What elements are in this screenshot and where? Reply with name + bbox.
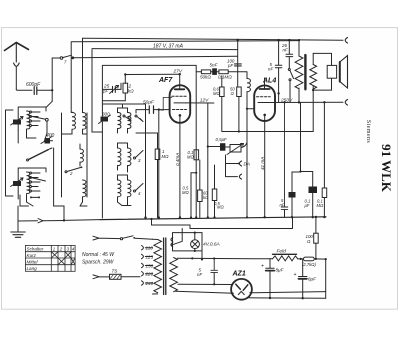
resistor 0,6M vertical xyxy=(221,76,223,87)
transformer core xyxy=(304,55,306,89)
tube AL4 xyxy=(254,85,275,121)
mains line 1 arrow xyxy=(93,236,120,240)
AL4 cathode lead xyxy=(264,115,266,217)
node heater xyxy=(150,218,152,220)
svg-text:50kΩ: 50kΩ xyxy=(200,75,211,80)
svg-text:Schalter: Schalter xyxy=(27,247,44,252)
wire vertical antenna node xyxy=(51,58,53,101)
chassis bus xyxy=(100,217,326,220)
AF7 cathode node xyxy=(179,114,182,117)
node rail145 bus xyxy=(144,216,146,218)
IF coil A xyxy=(71,111,73,114)
wire rail x145.5 xyxy=(145,104,147,218)
capacitor 5nF solid xyxy=(211,71,213,73)
svg-text:220: 220 xyxy=(145,272,154,277)
wire secondary top to speaker xyxy=(313,53,331,65)
svg-text:MΩ: MΩ xyxy=(317,203,324,208)
switch tone xyxy=(288,57,290,69)
svg-text:DA: DA xyxy=(244,162,250,167)
trimmer capacitor assembly2 xyxy=(13,181,21,186)
resistor 50 vertical xyxy=(237,87,242,97)
node screen junction xyxy=(221,79,223,81)
coil L1 xyxy=(27,111,30,129)
svg-text:(2,7kΩ): (2,7kΩ) xyxy=(302,262,316,267)
svg-text:nF: nF xyxy=(283,48,288,53)
wire left rail xyxy=(6,110,14,196)
wire ground feed xyxy=(18,206,38,221)
AZ1 electrodes xyxy=(236,284,248,290)
switch wiper assembly2 xyxy=(29,177,46,181)
AL4 grid dashed xyxy=(257,96,271,98)
resistor 0,5M b xyxy=(214,165,216,189)
svg-text:600pF: 600pF xyxy=(26,82,41,88)
wire AL4 grid line xyxy=(247,108,254,110)
svg-text:kΩ: kΩ xyxy=(128,89,134,94)
lamp loop xyxy=(173,233,203,260)
svg-text:4V,0,6A: 4V,0,6A xyxy=(203,242,220,248)
osc coil D xyxy=(128,148,131,166)
svg-text:MΩ: MΩ xyxy=(162,154,170,159)
wire AF7 anode down xyxy=(207,103,209,217)
IF coil C xyxy=(80,149,83,162)
wire corner T1 left vertical xyxy=(82,38,84,112)
svg-text:8μF: 8μF xyxy=(276,268,285,273)
wire bus T3 xyxy=(52,57,60,59)
AF7 anode xyxy=(174,102,186,104)
IF coil B xyxy=(83,113,86,130)
trimmer capacitor assembly1 xyxy=(13,120,21,125)
node bus 196 xyxy=(195,216,197,218)
resistor 0,1M b xyxy=(322,188,327,198)
mains line 2 arrow xyxy=(93,275,109,279)
AF7 grid lead left xyxy=(159,97,172,110)
transformer secondary winding xyxy=(170,258,178,292)
svg-text:110: 110 xyxy=(146,246,154,251)
capacitor 5nF AL4 xyxy=(275,40,282,68)
resistor 0,1M a xyxy=(217,71,219,73)
contact arrow b xyxy=(135,115,137,117)
AF7 top cap lead xyxy=(179,74,181,88)
svg-text:TS: TS xyxy=(112,269,119,274)
wire screen feed vertical x237.7 xyxy=(237,40,239,87)
tube AZ1 xyxy=(231,279,252,300)
terminal chevron 250V xyxy=(345,100,347,106)
resistor 100 ohm xyxy=(315,217,317,233)
selector contacts xyxy=(171,238,173,247)
wire bus T1b xyxy=(71,41,298,113)
wire osc block top corner xyxy=(54,148,64,220)
wire DA terminals xyxy=(226,155,238,177)
transformer primary winding xyxy=(154,240,162,293)
svg-text:27V: 27V xyxy=(173,69,183,75)
svg-text:Kurz: Kurz xyxy=(27,253,37,258)
band coil assembly 1 frame xyxy=(18,107,46,130)
speaker xyxy=(327,65,336,78)
contact arrow a xyxy=(123,115,125,117)
potentiometer volume xyxy=(230,145,241,153)
svg-text:150: 150 xyxy=(146,263,154,268)
AL4 cathode node xyxy=(263,114,266,117)
switch 4 xyxy=(134,190,136,192)
output transformer secondary xyxy=(312,53,314,64)
svg-text:μF: μF xyxy=(304,203,310,208)
wire right riser xyxy=(325,259,327,298)
node 50uF right xyxy=(158,108,160,110)
ground symbol xyxy=(17,221,19,232)
capacitor 5nF CT xyxy=(211,259,218,273)
coil L2 xyxy=(27,172,30,194)
AF7 anode lead right xyxy=(186,102,214,104)
svg-text:MΩ: MΩ xyxy=(217,205,224,210)
capacitor 600pF xyxy=(34,87,37,95)
arrow on ground line xyxy=(38,219,43,223)
switch contacts assembly1 xyxy=(30,111,32,113)
svg-text:MΩ: MΩ xyxy=(187,155,194,160)
osc coil A xyxy=(118,113,121,129)
wire rail x87 xyxy=(86,113,88,197)
AL4 anode xyxy=(258,102,271,104)
switch 7 xyxy=(60,57,63,60)
wire 2k bottom L xyxy=(102,93,125,101)
svg-text:+: + xyxy=(294,272,297,278)
capacitor 50uF xyxy=(149,106,153,114)
resistor 180 xyxy=(199,160,201,190)
resistor 2,7k xyxy=(304,257,315,261)
svg-text:nF: nF xyxy=(197,272,202,277)
wire HT line y259 xyxy=(177,257,272,260)
svg-text:Normal : 45 W: Normal : 45 W xyxy=(82,252,115,258)
wire T3 continuation xyxy=(74,56,238,58)
osc coil F xyxy=(128,180,131,197)
node AF7 grid cap xyxy=(179,73,181,75)
svg-text:AZ1: AZ1 xyxy=(232,271,246,278)
wire line y74.5 to AF7 grid cap xyxy=(125,73,179,75)
band coil assembly 2 frame xyxy=(18,168,46,192)
wire cap to node xyxy=(37,89,52,91)
osc coil E xyxy=(118,180,121,197)
node 27V feed xyxy=(124,73,126,75)
wave switch arm xyxy=(29,150,49,160)
table X mittel 4 xyxy=(71,258,75,265)
svg-text:41 mA: 41 mA xyxy=(260,157,265,170)
switch 3 xyxy=(134,157,136,159)
coil AL4 grid choke xyxy=(247,79,250,92)
capacitor 10nF solid xyxy=(289,192,296,198)
AL4 top cap lead xyxy=(264,78,266,88)
svg-text:Lang: Lang xyxy=(27,266,38,271)
AF7 cathode lead xyxy=(179,115,181,217)
wire AZ1 anode line 2 xyxy=(176,291,234,293)
osc coil B xyxy=(128,113,131,129)
svg-text:nF: nF xyxy=(280,202,285,207)
switch wiper assembly1 xyxy=(29,116,46,120)
capacitor 100pF xyxy=(235,64,242,66)
wire speaker HT vertical xyxy=(323,102,325,188)
antenna xyxy=(15,43,17,63)
lamp dial xyxy=(191,240,200,249)
table X kurz 1 xyxy=(51,252,58,258)
capacitor 0,1uF solid xyxy=(309,187,318,194)
resistor 50k xyxy=(197,71,202,73)
terminal chevron DA1 xyxy=(239,161,241,166)
svg-text:nF: nF xyxy=(268,67,273,72)
node ground line xyxy=(63,219,65,221)
svg-text:Mittel: Mittel xyxy=(27,260,39,265)
transformer core xyxy=(164,238,166,295)
AF7 grid1 dashed xyxy=(172,95,187,97)
switch 2 xyxy=(67,168,81,172)
wire transformer return xyxy=(250,292,326,293)
wire corner T2 left vertical xyxy=(92,50,102,133)
svg-text:2: 2 xyxy=(59,247,63,252)
svg-text:Siemens: Siemens xyxy=(365,120,371,143)
heater sub line xyxy=(152,217,293,228)
svg-text:8μF: 8μF xyxy=(308,277,317,282)
wire bus T2 xyxy=(92,49,238,50)
svg-text:+: + xyxy=(261,264,264,270)
svg-text:125: 125 xyxy=(146,254,154,259)
box frame RF section xyxy=(102,65,196,217)
resistor 1M xyxy=(157,133,159,149)
voltage selector wiper xyxy=(171,229,182,246)
wire 250V line xyxy=(271,101,343,103)
capacitor 8uF a xyxy=(266,259,274,269)
AF7 grid cap bar xyxy=(175,88,185,90)
wire secondary bottom to speaker xyxy=(313,78,331,90)
tube AF7 xyxy=(170,85,191,123)
svg-text:0,5μF: 0,5μF xyxy=(216,137,228,142)
fuse TS xyxy=(110,274,122,279)
svg-text:pF: pF xyxy=(227,63,233,68)
wire bus T1 187V top xyxy=(83,38,344,40)
svg-text:250V: 250V xyxy=(280,97,293,103)
wire assembly1 bottom xyxy=(18,121,52,143)
svg-text:50μF: 50μF xyxy=(143,100,155,106)
wire pot hook xyxy=(241,143,247,148)
osc coil C xyxy=(118,148,121,166)
IF coil D xyxy=(83,180,86,197)
svg-text:240: 240 xyxy=(145,281,154,286)
node antenna junction xyxy=(51,89,53,91)
svg-text:0,4mA: 0,4mA xyxy=(175,153,180,166)
transformer taps xyxy=(142,246,153,250)
table Schalter xyxy=(25,245,75,271)
mains switch xyxy=(120,238,122,240)
wire output sub line xyxy=(292,171,301,173)
wire assembly2 bottom jog xyxy=(18,192,33,206)
resistor 0,1M c xyxy=(194,150,199,160)
wire 25pF leads xyxy=(102,83,121,89)
svg-text:91 WLK: 91 WLK xyxy=(379,144,394,193)
wire AZ1 anode line xyxy=(178,283,231,285)
AL4 grid cap bar xyxy=(260,88,270,90)
wire 2k top to 74.5 line xyxy=(124,75,126,84)
wire antenna to cap xyxy=(16,89,32,91)
wire diagonal to band switch xyxy=(46,101,52,107)
capacitor 8uF b xyxy=(299,259,307,276)
terminal chevron T1 xyxy=(345,38,347,44)
svg-text:MΩ: MΩ xyxy=(213,91,220,96)
svg-text:AF7: AF7 xyxy=(158,77,173,84)
wire osc tops xyxy=(102,104,145,108)
output transformer primary xyxy=(298,39,300,41)
svg-text:Sparsch. 29W: Sparsch. 29W xyxy=(82,260,115,266)
wire rail x159 xyxy=(158,110,160,218)
table X mittel 2 xyxy=(58,258,65,265)
wire jog 0,1Mc xyxy=(191,173,196,218)
AF7 grid2 dashed xyxy=(173,109,187,111)
svg-text:5nF: 5nF xyxy=(210,63,219,68)
table X kurz 3 xyxy=(65,252,71,258)
resistor 2k xyxy=(123,83,128,93)
svg-text:2: 2 xyxy=(69,171,73,176)
terminal chevron DA2 xyxy=(239,174,241,179)
wire 50uF line xyxy=(136,110,170,113)
svg-text:0,1MΩ: 0,1MΩ xyxy=(218,75,232,80)
contact pair node xyxy=(30,196,32,198)
wire speaker rail down feedback xyxy=(222,90,313,131)
wire bottom bus xyxy=(249,297,326,300)
wire mid rail x61 xyxy=(61,113,63,197)
switch contacts assembly2 xyxy=(30,172,32,174)
svg-text:MΩ: MΩ xyxy=(182,190,189,195)
wire field vertical xyxy=(300,101,302,103)
capacitor 5nF bottom xyxy=(281,102,288,209)
